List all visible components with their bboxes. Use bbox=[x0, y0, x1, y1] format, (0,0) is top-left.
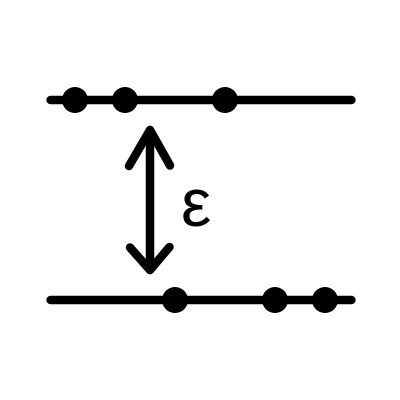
svg-text:ε: ε bbox=[181, 165, 211, 241]
dot 3 bottom bbox=[312, 287, 338, 313]
bottom arrowhead bbox=[130, 247, 170, 270]
bottom energy level line bbox=[51, 296, 352, 305]
top arrowhead bbox=[129, 130, 170, 166]
double-headed arrow shaft bbox=[146, 130, 155, 270]
dot 3 top bbox=[212, 87, 238, 113]
dot 2 top bbox=[112, 87, 138, 113]
dot 2 bottom bbox=[262, 287, 288, 313]
top energy level line bbox=[51, 96, 352, 105]
dot 1 bottom bbox=[162, 287, 188, 313]
dot 1 top bbox=[62, 87, 88, 113]
